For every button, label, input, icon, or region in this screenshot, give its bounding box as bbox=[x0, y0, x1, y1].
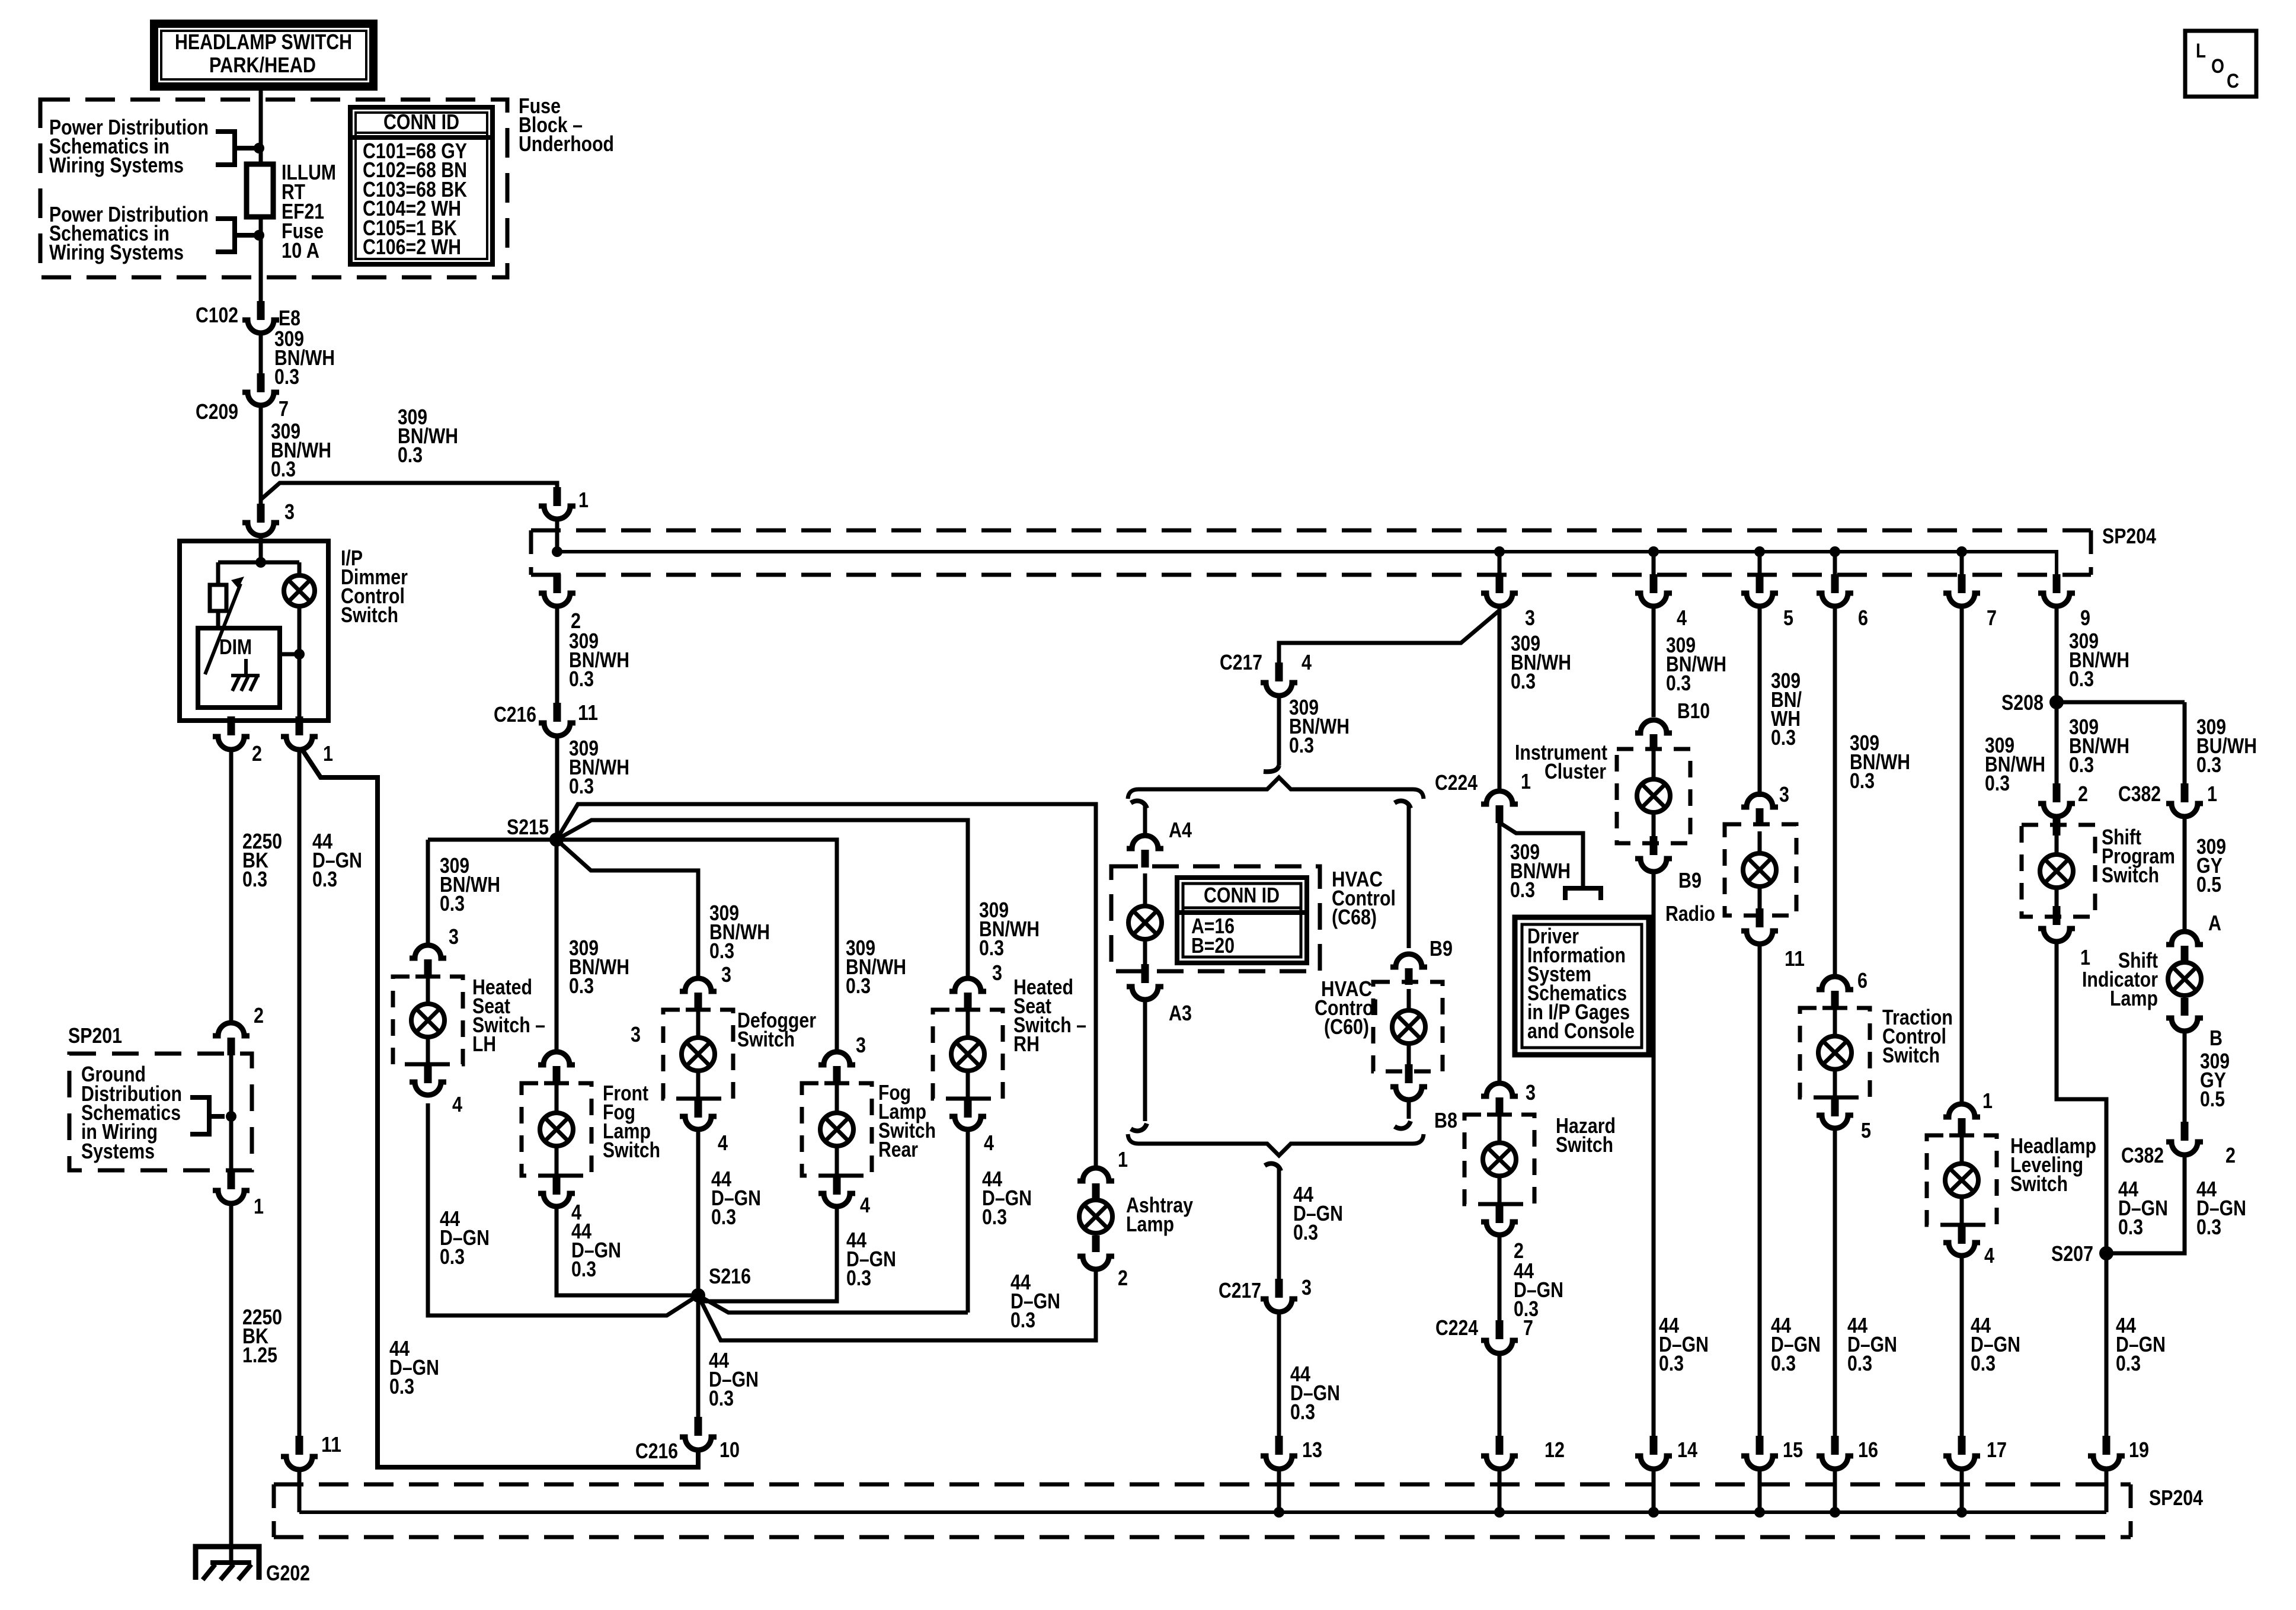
dimmer illumination lamp bbox=[284, 575, 315, 606]
connector defogger switch pin 3 bbox=[680, 978, 717, 991]
SP201 stub bottom bbox=[228, 1170, 235, 1189]
svg-text:B8: B8 bbox=[1434, 1108, 1457, 1132]
connector HVAC B8 bbox=[1390, 1087, 1427, 1100]
heated seat switch RH lamp bbox=[951, 1038, 984, 1071]
svg-text:3: 3 bbox=[1526, 1080, 1536, 1105]
connector instrument cluster B9 bbox=[1635, 859, 1672, 872]
wire C209 to dimmer switch bbox=[259, 405, 263, 507]
HVAC C68 lamp bbox=[1128, 906, 1162, 939]
connector SP204 bottom pin 15 (radio) bbox=[1756, 1436, 1764, 1455]
svg-text:C106=2 WH: C106=2 WH bbox=[363, 235, 461, 259]
connector HVAC A4 bbox=[1127, 836, 1163, 849]
svg-text:SP201: SP201 bbox=[68, 1023, 122, 1048]
wire 44 D-GN pin1 down bbox=[298, 750, 302, 1436]
connector C224 brace bottom bbox=[1128, 1134, 1424, 1156]
connector SP204 bottom pin 17 (headlamp leveling) bbox=[1958, 1436, 1966, 1455]
connector 19 stub bbox=[2103, 1436, 2110, 1455]
I/P dimmer control switch box bbox=[180, 541, 328, 721]
wire S208 to shift program bbox=[2055, 702, 2059, 783]
svg-text:Switch: Switch bbox=[341, 603, 398, 627]
connector shift program pin 1 bbox=[2038, 929, 2075, 942]
wire drop3 to C217-4 bbox=[1279, 610, 1499, 662]
wire radio to pin15 bbox=[1758, 944, 1762, 1436]
fuse block underhood dashed box bbox=[40, 100, 507, 277]
connector shift indicator B bbox=[2166, 1018, 2203, 1031]
wire C217-4 down bbox=[1277, 696, 1281, 766]
wire drop5 to radio bbox=[1758, 610, 1762, 797]
connector dimmer pin 3 bbox=[242, 523, 279, 536]
connector C217 pin 4 bbox=[1261, 683, 1297, 696]
connector dimmer pin 2 bbox=[213, 737, 250, 750]
svg-text:0.3: 0.3 bbox=[569, 774, 594, 798]
fog lamp switch rear lamp bbox=[820, 1113, 853, 1146]
connector radio pin 3 bbox=[1741, 794, 1778, 807]
svg-text:Cluster: Cluster bbox=[1544, 759, 1606, 783]
svg-text:0.3: 0.3 bbox=[2196, 1215, 2221, 1239]
svg-text:DIM: DIM bbox=[219, 635, 252, 659]
svg-text:Wiring Systems: Wiring Systems bbox=[49, 240, 184, 264]
svg-text:0.3: 0.3 bbox=[2069, 753, 2094, 777]
svg-text:3: 3 bbox=[1525, 606, 1535, 630]
radio dashed box bbox=[1725, 824, 1796, 916]
connector C382 pin 2 (shift program) bbox=[2038, 804, 2075, 817]
wire B8 down bbox=[1407, 1100, 1411, 1119]
svg-text:17: 17 bbox=[1987, 1438, 2007, 1462]
svg-text:0.3: 0.3 bbox=[569, 667, 594, 691]
svg-text:0.3: 0.3 bbox=[709, 1386, 734, 1410]
svg-text:10: 10 bbox=[720, 1438, 740, 1462]
svg-text:C216: C216 bbox=[494, 702, 536, 726]
svg-text:(C60): (C60) bbox=[1324, 1014, 1369, 1039]
defogger switch lamp bbox=[682, 1038, 715, 1071]
svg-text:16: 16 bbox=[1858, 1438, 1878, 1462]
svg-text:6: 6 bbox=[1858, 606, 1868, 630]
svg-text:A3: A3 bbox=[1169, 1001, 1192, 1025]
svg-text:4: 4 bbox=[984, 1131, 994, 1155]
heated seat switch LH dashed box bbox=[393, 977, 463, 1064]
svg-text:4: 4 bbox=[860, 1193, 870, 1217]
connector SP204 bottom pin 14 (instrument cluster) bbox=[1650, 1436, 1658, 1455]
wire C217-3 to pin13 bbox=[1277, 1312, 1281, 1436]
wire S215 to fog lamp switch rear bbox=[557, 840, 837, 1052]
connector dimmer pin2 stub bbox=[228, 716, 235, 735]
svg-text:2: 2 bbox=[1118, 1266, 1128, 1290]
connector C217 pin 3 bbox=[1261, 1299, 1297, 1312]
splice node drop5 bbox=[1754, 546, 1765, 557]
shift program switch lamp bbox=[2040, 854, 2073, 888]
svg-text:3: 3 bbox=[856, 1033, 866, 1057]
connector shift indicator A bbox=[2166, 932, 2203, 945]
svg-text:0.3: 0.3 bbox=[1847, 1351, 1872, 1375]
svg-text:Rear: Rear bbox=[878, 1137, 918, 1161]
wire headlamp leveling to pin17 bbox=[1960, 1253, 1964, 1436]
svg-text:C224: C224 bbox=[1435, 1315, 1478, 1340]
svg-text:5: 5 bbox=[1783, 606, 1793, 630]
wire drop9 to S208 bbox=[2055, 606, 2059, 702]
svg-text:CONN ID: CONN ID bbox=[1204, 883, 1280, 907]
svg-text:1: 1 bbox=[578, 488, 589, 512]
SP204 bottom bus wire bbox=[299, 1510, 2106, 1514]
svg-text:0.3: 0.3 bbox=[389, 1374, 414, 1398]
svg-text:C382: C382 bbox=[2118, 782, 2161, 806]
svg-text:(C68): (C68) bbox=[1332, 905, 1377, 929]
splice node drop7 bbox=[1956, 546, 1967, 557]
svg-text:1: 1 bbox=[1982, 1089, 1993, 1113]
wire S216 to C216-10 bbox=[696, 1295, 701, 1417]
wire shift program to S207 bbox=[2057, 942, 2106, 1253]
heated seat switch RH dashed box bbox=[933, 1010, 1003, 1099]
wire B9 down to pin14 bbox=[1652, 872, 1656, 1436]
svg-text:0.3: 0.3 bbox=[271, 457, 296, 481]
connector headlamp leveling switch pin 1 bbox=[1943, 1104, 1980, 1117]
wire S215 to heated seat LH bbox=[428, 840, 557, 946]
wire through SP201 bbox=[229, 1055, 234, 1170]
SP204 bus wire bbox=[557, 552, 2057, 579]
wire C382-2 to S207 bbox=[2106, 1155, 2185, 1253]
wire traction to pin16 bbox=[1833, 1126, 1837, 1436]
fog lamp switch rear dashed box bbox=[802, 1083, 872, 1176]
wire heated LH to S216 bbox=[428, 1103, 698, 1315]
wire drop7 to headlamp leveling bbox=[1960, 610, 1964, 1105]
svg-text:0.3: 0.3 bbox=[1293, 1220, 1318, 1244]
splice node drop3 bbox=[1494, 546, 1505, 557]
DIM box bbox=[198, 628, 280, 708]
svg-text:9: 9 bbox=[2080, 606, 2090, 630]
LOC legend box bbox=[2185, 31, 2256, 97]
connector C382 pin 2 (indicator) bbox=[2166, 1142, 2203, 1155]
radio lamp bbox=[1743, 853, 1776, 886]
svg-text:0.3: 0.3 bbox=[274, 364, 299, 389]
svg-text:19: 19 bbox=[2129, 1438, 2149, 1462]
splice node drop6 bbox=[1830, 546, 1840, 557]
splice node drop4 bbox=[1648, 546, 1659, 557]
connector drop9 stub bbox=[2053, 574, 2061, 593]
wire C216-11 to S215 bbox=[555, 736, 559, 840]
connector front fog lamp switch pin 3 bbox=[538, 1052, 575, 1065]
svg-text:15: 15 bbox=[1783, 1438, 1803, 1462]
svg-text:0.3: 0.3 bbox=[846, 1266, 871, 1290]
svg-text:SP204: SP204 bbox=[2149, 1486, 2203, 1510]
wire end curl A3 bbox=[1131, 1124, 1147, 1131]
HVAC C60 lamp bbox=[1392, 1010, 1425, 1044]
svg-text:11: 11 bbox=[321, 1432, 341, 1457]
connector SP204 pin 11 bbox=[281, 1457, 318, 1470]
wire front fog to S216 bbox=[557, 1204, 698, 1295]
rheostat arrow bbox=[205, 584, 241, 674]
svg-text:PARK/HEAD: PARK/HEAD bbox=[209, 53, 316, 77]
connector fog lamp switch rear pin 4 bbox=[818, 1193, 855, 1206]
front fog lamp switch dashed box bbox=[522, 1083, 591, 1176]
rheostat resistor bbox=[210, 585, 226, 611]
svg-text:C224: C224 bbox=[1435, 770, 1478, 795]
wire lamp to pin1 bbox=[298, 606, 302, 721]
connector C382-2r stub bbox=[2181, 1122, 2189, 1141]
traction control switch dashed box bbox=[1800, 1008, 1870, 1097]
SP204 splice pack bottom dashed box bbox=[274, 1483, 2131, 1487]
splice S216 bbox=[691, 1288, 705, 1302]
wire branch pin1 to C216-10 loop bbox=[301, 748, 698, 1467]
svg-text:0.3: 0.3 bbox=[242, 867, 267, 891]
svg-text:0.3: 0.3 bbox=[1289, 733, 1314, 757]
SP201 stub top bbox=[228, 1038, 235, 1055]
connector HVAC B9 bbox=[1390, 954, 1427, 967]
wire end curl above C224 brace bbox=[1264, 766, 1279, 772]
connector C216 pin 11 bbox=[539, 723, 575, 736]
wire rheostat to DIM bbox=[216, 611, 220, 628]
wire pin19 to bus bbox=[2105, 1469, 2109, 1512]
wire 309 BN/WH C102-C209 bbox=[259, 333, 263, 391]
svg-text:B9: B9 bbox=[1678, 868, 1702, 892]
connector instrument cluster B10 bbox=[1635, 720, 1672, 733]
wire heated RH to S216 bbox=[698, 1127, 968, 1313]
instrument cluster lamp bbox=[1637, 779, 1670, 812]
connector drop2 stub bbox=[554, 574, 561, 593]
CONN ID table HVAC bbox=[1177, 878, 1307, 963]
connector headlamp leveling switch pin 4 bbox=[1943, 1243, 1980, 1256]
wire S207 to pin19 bbox=[2105, 1253, 2109, 1436]
headlamp leveling switch dashed box bbox=[1927, 1135, 1997, 1225]
svg-text:S216: S216 bbox=[709, 1264, 751, 1288]
svg-text:4: 4 bbox=[1984, 1243, 1994, 1267]
wire start curl B9 bbox=[1395, 801, 1411, 808]
svg-text:O: O bbox=[2211, 55, 2224, 78]
svg-text:4: 4 bbox=[718, 1131, 728, 1155]
wire defogger to S216 bbox=[696, 1127, 701, 1295]
svg-text:0.3: 0.3 bbox=[2196, 753, 2221, 777]
connector traction control switch pin 6 bbox=[1817, 977, 1853, 990]
svg-text:C217: C217 bbox=[1219, 1278, 1261, 1302]
wire branch to SP204 riser bbox=[261, 483, 557, 500]
SP201 dashed box bbox=[69, 1054, 252, 1170]
wire in HVAC box bbox=[1143, 873, 1147, 906]
svg-text:0.3: 0.3 bbox=[2116, 1351, 2141, 1375]
svg-text:1: 1 bbox=[2207, 782, 2217, 806]
svg-text:C209: C209 bbox=[196, 399, 238, 424]
connector C382-2 stub bbox=[2053, 783, 2061, 802]
svg-text:0.3: 0.3 bbox=[982, 1205, 1007, 1229]
svg-text:Lamp: Lamp bbox=[2110, 986, 2158, 1010]
svg-text:B=20: B=20 bbox=[1191, 933, 1235, 958]
splice S207 bbox=[2099, 1246, 2113, 1260]
svg-text:2: 2 bbox=[254, 1003, 264, 1028]
ashtray lamp bbox=[1079, 1200, 1112, 1233]
svg-text:3: 3 bbox=[1779, 782, 1789, 806]
wire start curl C217-3 bbox=[1265, 1164, 1281, 1171]
svg-text:Switch: Switch bbox=[2102, 863, 2159, 887]
svg-text:0.3: 0.3 bbox=[312, 867, 337, 891]
bracket power distribution 2 bbox=[216, 219, 255, 252]
svg-text:B9: B9 bbox=[1430, 936, 1453, 961]
connector SP204 pin 9 bbox=[2038, 593, 2075, 606]
connector riser pin1 stub bbox=[554, 487, 561, 506]
splice node 15 bbox=[1754, 1507, 1765, 1518]
svg-text:Switch: Switch bbox=[1556, 1132, 1613, 1157]
svg-text:3: 3 bbox=[284, 500, 295, 524]
svg-text:3: 3 bbox=[449, 924, 459, 949]
svg-text:0.3: 0.3 bbox=[1985, 771, 2010, 795]
svg-text:3: 3 bbox=[992, 961, 1002, 985]
svg-text:Radio: Radio bbox=[1665, 901, 1715, 926]
connector C209 stub bbox=[257, 373, 265, 392]
svg-text:C102: C102 bbox=[196, 303, 238, 327]
connector C382 pin 1 bbox=[2166, 804, 2203, 817]
svg-text:Switch: Switch bbox=[603, 1138, 660, 1162]
driver information box bbox=[1515, 917, 1649, 1055]
svg-text:12: 12 bbox=[1544, 1438, 1565, 1462]
svg-text:Underhood: Underhood bbox=[519, 132, 614, 156]
shift indicator lamp bbox=[2168, 962, 2201, 996]
wire to rheostat bbox=[218, 561, 261, 565]
connector traction control switch pin 5 bbox=[1817, 1115, 1853, 1128]
svg-text:1: 1 bbox=[1118, 1147, 1128, 1172]
wire S208 to C382-1 bbox=[2057, 700, 2185, 705]
defogger switch dashed box bbox=[663, 1010, 733, 1099]
svg-text:Systems: Systems bbox=[81, 1139, 155, 1163]
connector C217-3 stub bbox=[1275, 1279, 1283, 1298]
connector C216-10 stub bbox=[695, 1417, 702, 1436]
connector front fog lamp switch pin 4 bbox=[538, 1193, 575, 1206]
svg-text:4: 4 bbox=[1677, 606, 1687, 630]
svg-text:0.3: 0.3 bbox=[2069, 667, 2094, 691]
connector HVAC A3 bbox=[1127, 987, 1163, 1000]
wire end curl B8 bbox=[1395, 1121, 1411, 1128]
svg-text:6: 6 bbox=[1857, 968, 1868, 993]
connector C217-4 stub bbox=[1275, 662, 1283, 681]
headlamp leveling switch lamp bbox=[1945, 1164, 1978, 1197]
svg-text:14: 14 bbox=[1677, 1438, 1697, 1462]
svg-text:C382: C382 bbox=[2121, 1143, 2164, 1167]
splice S208 bbox=[2049, 695, 2064, 709]
connector heated seat switch LH pin 3 bbox=[410, 945, 446, 958]
wire hazard to C224-7 bbox=[1498, 1233, 1502, 1320]
wire S215 to defogger bbox=[557, 840, 698, 979]
connector 11 stub bbox=[296, 1436, 303, 1455]
wire hazard split to driver info pointer bbox=[1501, 824, 1583, 886]
ground G202 bbox=[196, 1547, 259, 1580]
wire 2250 BK 1.25 to G202 bbox=[229, 1204, 234, 1563]
svg-text:and Console: and Console bbox=[1527, 1019, 1635, 1043]
svg-text:10 A: 10 A bbox=[282, 238, 319, 263]
svg-text:7: 7 bbox=[279, 396, 289, 421]
svg-text:11: 11 bbox=[578, 700, 598, 725]
wire 309 GY lower bbox=[2183, 1031, 2187, 1122]
svg-text:0.3: 0.3 bbox=[1659, 1351, 1684, 1375]
connector ashtray pin 1 bbox=[1077, 1168, 1114, 1181]
svg-text:L: L bbox=[2196, 40, 2206, 62]
svg-text:7: 7 bbox=[1987, 606, 1997, 630]
svg-text:RH: RH bbox=[1013, 1032, 1040, 1056]
wire S215 to ashtray lamp bbox=[557, 804, 1096, 1168]
wire C224-1 to hazard switch bbox=[1498, 823, 1502, 1084]
connector SP204 pin 1 bbox=[539, 506, 575, 519]
svg-text:HEADLAMP SWITCH: HEADLAMP SWITCH bbox=[175, 30, 352, 54]
svg-text:3: 3 bbox=[721, 962, 731, 987]
connector dimmer pin3 stub bbox=[257, 504, 265, 523]
hazard switch dashed box bbox=[1464, 1115, 1534, 1204]
connector dimmer pin1 stub bbox=[296, 716, 303, 735]
splice node 13 bbox=[1274, 1507, 1284, 1518]
ashtray stub bottom bbox=[1092, 1235, 1100, 1252]
CONN ID table fuse block bbox=[350, 107, 493, 264]
HVAC control C68 dashed box bbox=[1111, 866, 1320, 971]
wire S215 to heated seat RH bbox=[557, 820, 968, 979]
wire drop2 to C216-11 bbox=[555, 606, 559, 703]
wire fog rear to S216 bbox=[698, 1204, 837, 1301]
svg-text:1: 1 bbox=[1521, 769, 1531, 793]
wire conn11 to bus bbox=[298, 1470, 302, 1512]
svg-text:Wiring Systems: Wiring Systems bbox=[49, 153, 184, 177]
svg-text:B10: B10 bbox=[1677, 699, 1710, 723]
connector fog lamp switch rear pin 3 bbox=[818, 1052, 855, 1065]
bracket power distribution 1 bbox=[216, 132, 255, 165]
svg-text:SP204: SP204 bbox=[2102, 524, 2156, 548]
connector SP204 bottom pin 12 (hazard) bbox=[1496, 1436, 1504, 1455]
wire drop6 to traction control bbox=[1833, 610, 1837, 977]
wire drop3 down to C224-1 bbox=[1498, 610, 1502, 790]
svg-text:4: 4 bbox=[452, 1092, 462, 1116]
instrument cluster dashed box bbox=[1617, 749, 1690, 843]
splice node 16 bbox=[1830, 1507, 1840, 1518]
pointer bracket driver information bbox=[1565, 888, 1601, 900]
svg-text:S208: S208 bbox=[2001, 690, 2044, 715]
connector C102 stub bbox=[257, 301, 265, 320]
svg-text:0.3: 0.3 bbox=[1850, 769, 1875, 793]
connector heated seat switch LH pin 4 bbox=[410, 1082, 446, 1095]
svg-text:0.3: 0.3 bbox=[711, 1205, 736, 1229]
svg-text:0.3: 0.3 bbox=[1771, 1351, 1796, 1375]
svg-text:0.5: 0.5 bbox=[2196, 872, 2221, 897]
connector C224 pin 1 arch bbox=[1481, 791, 1518, 804]
svg-text:4: 4 bbox=[1302, 650, 1312, 674]
connector SP204 bottom pin 16 (traction) bbox=[1831, 1436, 1839, 1455]
splice S215 bbox=[549, 833, 564, 847]
connector hazard switch pin 3 bbox=[1481, 1083, 1518, 1096]
fuse ILLUM RT EF21 10A bbox=[247, 164, 273, 217]
svg-text:0.3: 0.3 bbox=[1771, 725, 1796, 750]
svg-text:0.3: 0.3 bbox=[571, 1257, 596, 1281]
svg-text:0.3: 0.3 bbox=[709, 939, 734, 963]
connector hazard switch pin 2 bbox=[1481, 1222, 1518, 1235]
svg-text:1: 1 bbox=[323, 741, 333, 766]
SP204 drop pin 7 headlamp leveling bbox=[1960, 552, 1964, 574]
shift program switch box bbox=[2022, 825, 2095, 917]
svg-text:S207: S207 bbox=[2051, 1241, 2093, 1266]
connector ashtray pin 2 bbox=[1077, 1256, 1114, 1269]
svg-text:LH: LH bbox=[472, 1032, 496, 1056]
svg-text:0.3: 0.3 bbox=[1511, 669, 1536, 693]
svg-text:3: 3 bbox=[1302, 1275, 1312, 1299]
wire fuse to C102 bbox=[259, 217, 263, 301]
svg-text:0.3: 0.3 bbox=[1011, 1308, 1035, 1332]
front fog lamp switch lamp bbox=[540, 1113, 573, 1146]
svg-text:Switch: Switch bbox=[2010, 1172, 2068, 1196]
wire drop4 to B10 bbox=[1652, 610, 1656, 717]
svg-text:Switch: Switch bbox=[737, 1027, 795, 1051]
svg-text:0.3: 0.3 bbox=[979, 936, 1004, 960]
svg-text:0.3: 0.3 bbox=[440, 891, 465, 916]
svg-text:1: 1 bbox=[2080, 945, 2090, 969]
svg-text:1.25: 1.25 bbox=[242, 1343, 277, 1367]
wire C224-7 to pin12 bbox=[1498, 1353, 1502, 1436]
wire S215 to front fog bbox=[555, 840, 559, 1052]
svg-text:0.3: 0.3 bbox=[1666, 671, 1691, 695]
svg-text:A4: A4 bbox=[1169, 818, 1192, 842]
connector heated seat switch RH pin 3 bbox=[949, 978, 986, 991]
ground symbol in DIM bbox=[231, 659, 260, 691]
headlamp switch title box bbox=[154, 24, 373, 87]
connector C216-11 stub bbox=[554, 703, 561, 722]
wire ashtray to S216 bbox=[698, 1269, 1096, 1340]
